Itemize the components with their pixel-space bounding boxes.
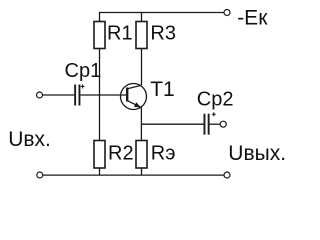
svg-text:Rэ: Rэ bbox=[151, 142, 176, 164]
svg-text:T1: T1 bbox=[150, 78, 175, 101]
svg-text:Cр1: Cр1 bbox=[65, 60, 102, 82]
svg-text:-Ек: -Ек bbox=[237, 6, 268, 29]
svg-text:R1: R1 bbox=[107, 23, 133, 45]
svg-text:R3: R3 bbox=[150, 23, 176, 45]
svg-text:Cр2: Cр2 bbox=[197, 89, 234, 111]
svg-text:Uвх.: Uвх. bbox=[8, 128, 51, 151]
svg-text:R2: R2 bbox=[108, 142, 134, 164]
svg-text:Uвых.: Uвых. bbox=[228, 142, 286, 165]
